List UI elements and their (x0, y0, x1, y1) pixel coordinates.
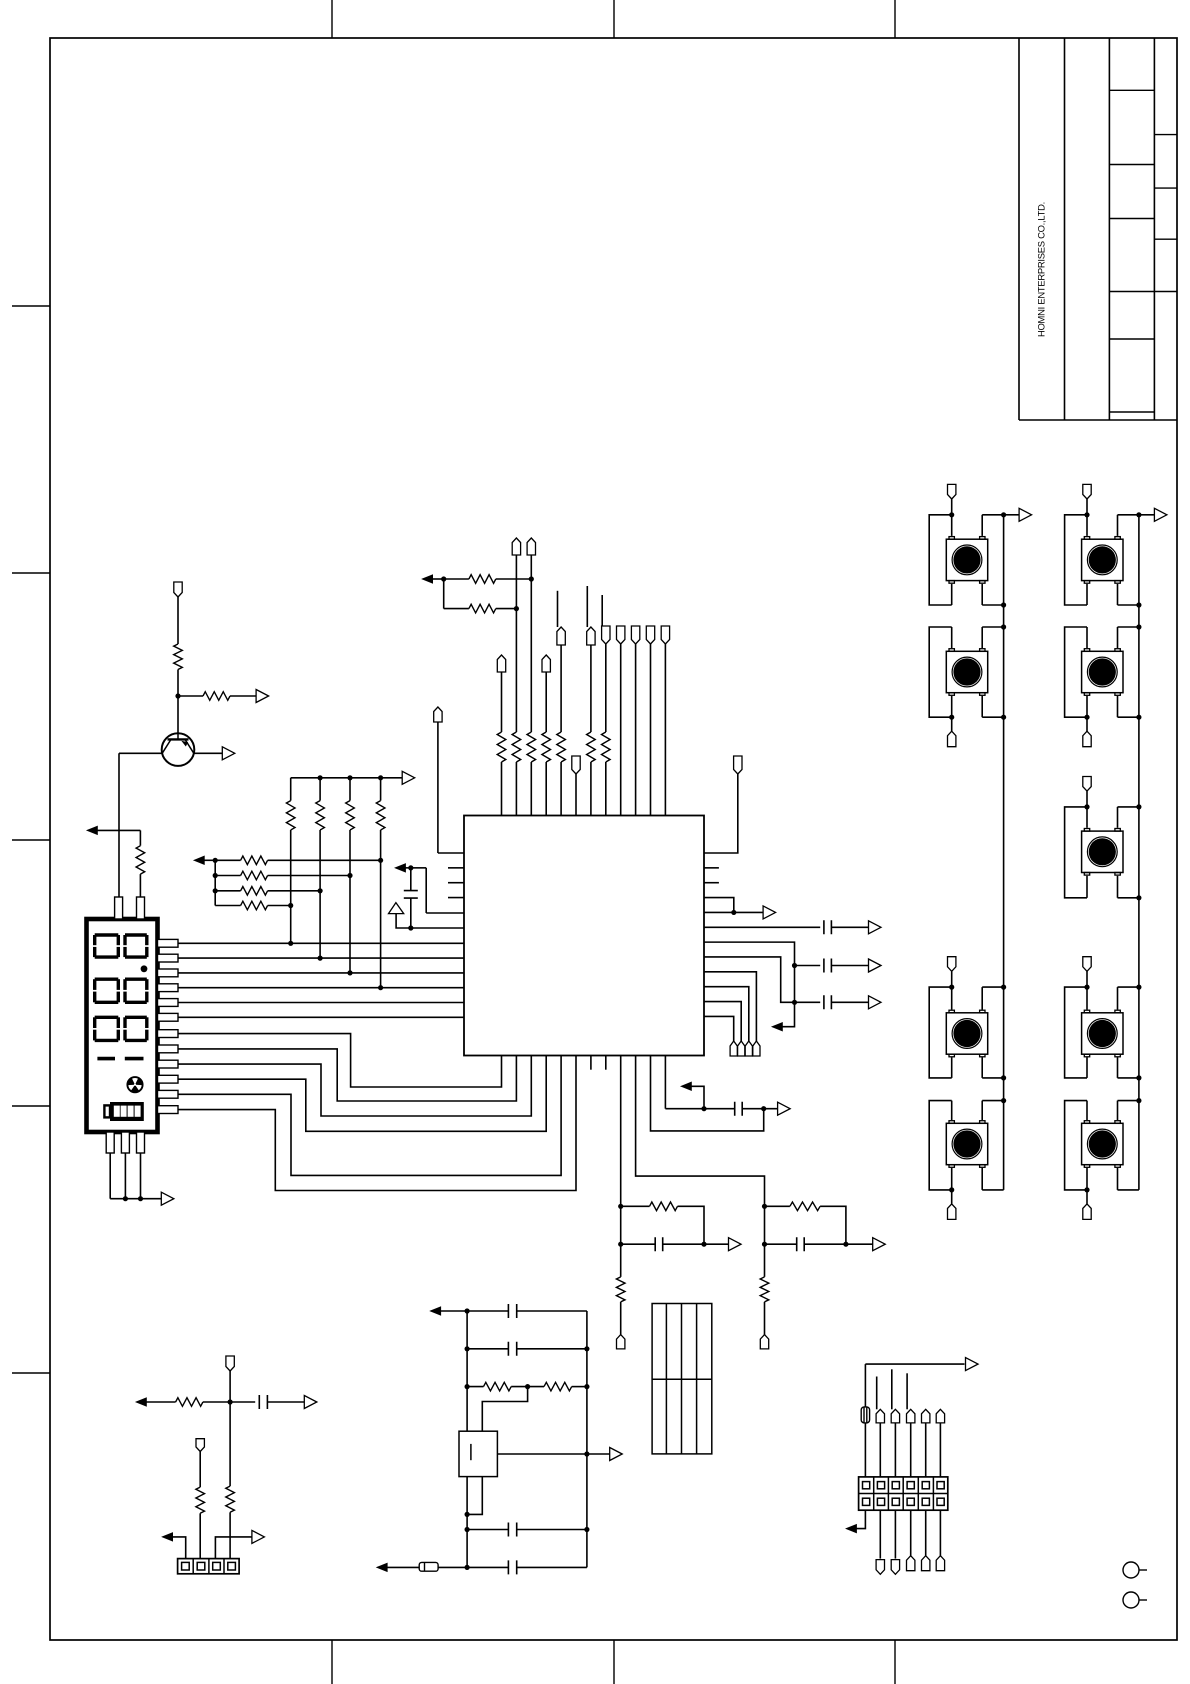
junction (1001, 602, 1006, 607)
frame tick left 1 (12, 305, 50, 307)
junction (701, 1242, 706, 1247)
wire R4 down (290, 830, 292, 943)
junction (1136, 1075, 1141, 1080)
wire X1 bottom b (467, 1477, 482, 1515)
net arrow N1 (87, 826, 97, 834)
mounting hole H1 (1123, 1562, 1147, 1578)
net flag J3 out4 (907, 1556, 915, 1571)
wire xt w4 a (467, 1529, 508, 1531)
net flag B10 (760, 1335, 768, 1349)
wire SW9 flagb (1086, 1190, 1088, 1204)
output port P5 (763, 906, 776, 919)
stub U1 L4 (448, 897, 464, 899)
wire SW3 br to bus (982, 1077, 1003, 1079)
wire F1 down (229, 1371, 231, 1402)
junction (1136, 895, 1141, 900)
resistor R11 (241, 901, 268, 910)
junction (1084, 804, 1089, 809)
wire xt bottom b (438, 1566, 508, 1568)
junction (465, 1565, 470, 1570)
junction (288, 941, 293, 946)
wire bus DS1 pin6 to U1 (178, 1016, 464, 1018)
resistor RT5 (557, 732, 566, 762)
wire out2 b (831, 1001, 868, 1003)
wire DS1 pin7 to U1 B1 (178, 1034, 502, 1087)
wire flag to elbow (437, 722, 439, 853)
wire Q1 collector right (194, 752, 222, 754)
wire SW2 bl (951, 696, 953, 717)
wire bus left col (1003, 515, 1005, 1190)
wire R12 out (496, 578, 532, 580)
capacitor C6 (797, 1237, 805, 1251)
capacitor C8 (508, 1304, 516, 1318)
wire xt w3 b (511, 1386, 527, 1388)
wire clk c (743, 1108, 778, 1110)
net flag SW5 top (1083, 484, 1091, 499)
wire cap top (410, 868, 412, 891)
wire SW8 bracket (1065, 987, 1087, 1078)
wire P14 to J2 (215, 1537, 252, 1559)
wire resistor to U1 pin 5 (560, 762, 562, 816)
switch SW7 (1082, 829, 1123, 876)
net flag top pin 9 (617, 626, 625, 644)
wire DS1 pin8 to U1 B2 (178, 1049, 516, 1101)
wire xt left bus a (466, 1311, 468, 1431)
junction (1001, 715, 1006, 720)
junction (514, 606, 519, 611)
junction (1136, 804, 1141, 809)
resistor R15 (650, 1202, 678, 1211)
frame tick bottom 3 (894, 1640, 896, 1684)
wire N4 (405, 867, 411, 869)
wire SW1 out (1004, 514, 1020, 516)
junction rail (347, 775, 352, 780)
wire RC2 r a (765, 1205, 790, 1207)
transistor Q1 (162, 733, 195, 766)
junction (1136, 985, 1141, 990)
junction (318, 888, 323, 893)
wire row4 b (268, 905, 291, 907)
microcontroller U1 (464, 816, 704, 1056)
wire flag to R1 (177, 597, 179, 644)
resistor R5 (316, 801, 325, 830)
wire RC1 out (704, 1243, 729, 1245)
wire SW4 flagb (951, 1190, 953, 1204)
wire emitter down to display (118, 753, 120, 897)
junction (465, 1527, 470, 1532)
wire SW4 tr to bus (982, 1100, 1003, 1102)
net flag top pin 11 (646, 626, 654, 644)
wire rail to R4 (290, 778, 292, 801)
frame tick bottom 1 (331, 1640, 333, 1684)
wire SW3 tr (981, 987, 983, 1009)
wire SW4 br to bus (982, 1189, 1003, 1191)
wire flag to resistor pin 4 (545, 672, 547, 732)
junction (1001, 985, 1006, 990)
wire R21 to J2 (229, 1512, 231, 1558)
wire SW7 flag (1086, 791, 1088, 807)
junction (441, 576, 446, 581)
net flag J3 out2 (876, 1560, 884, 1575)
wire J3 p1 out (856, 1510, 866, 1528)
resistor R9 (241, 871, 268, 880)
wire stub above flag pin 7 (586, 586, 588, 627)
frame tick left 3 (12, 839, 50, 841)
wire SW1 bl (951, 584, 953, 605)
junction (584, 1384, 589, 1389)
resistor RT4 (542, 732, 551, 762)
resistor R22 (196, 1487, 205, 1513)
junction (138, 1196, 143, 1201)
wire SW5 bracket (1065, 515, 1087, 605)
wire RC1 c b (663, 1243, 704, 1245)
wire bus DS1 pin3 to U1 (178, 972, 464, 974)
wire out1 a (795, 965, 821, 967)
wire SW1 tr to bus (982, 514, 1003, 516)
junction (318, 956, 323, 961)
junction (584, 1346, 589, 1351)
junction (1001, 1075, 1006, 1080)
net flag J3 out3 (891, 1560, 899, 1575)
wire SW4 bracket (929, 1101, 952, 1190)
wire SW3 tr to bus (982, 986, 1003, 988)
connector J3 (859, 1477, 948, 1510)
wire row3 a (215, 890, 240, 892)
resistor R14 (616, 1277, 625, 1302)
wire SW6 flagb (1086, 717, 1088, 731)
resistor R19 (544, 1382, 572, 1391)
wire arrow branch (691, 1086, 705, 1108)
output port P9 (729, 1238, 742, 1251)
junction (1136, 602, 1141, 607)
wire xt top b (467, 1310, 508, 1312)
resistor R21 (226, 1486, 235, 1512)
junction (843, 1242, 848, 1247)
resistor R13 (469, 604, 496, 613)
net flag SW9 bottom (1083, 1204, 1091, 1220)
stub U1 B8 (605, 1056, 607, 1070)
wire U1 B9 down (620, 1056, 622, 1277)
wire SW2 bracket (929, 627, 952, 717)
wire to R3 (139, 830, 141, 845)
wire U1 R7 (704, 942, 795, 1027)
wire J3 top rail (865, 1363, 964, 1365)
wire R2 to output (230, 695, 256, 697)
wire row3 b (268, 890, 321, 892)
junction (213, 858, 218, 863)
wire bus DS1 pin5 to U1 (178, 1002, 464, 1004)
capacitor C2 (824, 920, 832, 934)
wire SW5 br to bus (1118, 604, 1139, 606)
wire SW4 br (981, 1168, 983, 1190)
net arrow N2 (194, 856, 204, 864)
wire RC1 r a (621, 1205, 650, 1207)
junction rail (378, 775, 383, 780)
junction (949, 512, 954, 517)
output port P13 (304, 1396, 317, 1409)
wire flag to resistor pin 5 (560, 645, 562, 732)
junction (288, 903, 293, 908)
wire SW7 bracket (1065, 807, 1087, 898)
switch SW5 (1082, 537, 1123, 584)
wire SW2 flagb (951, 717, 953, 731)
switch SW6 (1082, 649, 1123, 696)
switch SW2 (946, 649, 987, 696)
wire J3 p2 (879, 1423, 881, 1477)
net flag SW3 top (948, 957, 956, 972)
wire node to Q1 (177, 696, 179, 734)
wire J3 p3 (894, 1423, 896, 1477)
wire U1 R8 (704, 957, 795, 1002)
wire stub above flag J3-4 (906, 1373, 908, 1409)
net flag R12 (730, 1041, 737, 1056)
net flag F2 (196, 1439, 204, 1452)
wire R1 to node (177, 670, 179, 697)
wire row1 b (268, 859, 381, 861)
wire stub above flag J3-2 (876, 1377, 878, 1410)
wire SW7 bl (1086, 876, 1088, 898)
wire J3 p1 b (864, 1423, 866, 1477)
junction (949, 985, 954, 990)
wire xt w3 a (467, 1386, 483, 1388)
wire SW7 br to bus (1118, 897, 1139, 899)
connector J2 (178, 1559, 240, 1574)
net arrow N11 (846, 1525, 856, 1533)
wire DS1 pin15 down (140, 1153, 142, 1199)
crystal X1 (459, 1431, 497, 1476)
junction (213, 873, 218, 878)
resistor R2 (203, 692, 230, 701)
wire J3 p4 out (910, 1510, 912, 1556)
wire rail to R5 (319, 778, 321, 801)
wire RC2 r b (820, 1206, 846, 1244)
wire SW1 bracket (929, 515, 952, 605)
wire SW8 bl (1086, 1058, 1088, 1078)
output port P2 (222, 747, 235, 760)
wire SW7 tl (1086, 807, 1088, 828)
capacitor C12 (259, 1395, 267, 1409)
resistor R6 (346, 801, 355, 830)
net flag B9 (617, 1335, 625, 1349)
wire to R21 (229, 1402, 231, 1486)
junction (378, 858, 383, 863)
wire R7 down (380, 830, 382, 988)
net flag R10 (745, 1041, 752, 1056)
resistor R12 (469, 575, 496, 584)
resistor R18 (484, 1382, 512, 1391)
resistor R7 (376, 801, 385, 830)
wire xt w2 a (467, 1348, 508, 1350)
wire SW5 out (1139, 514, 1155, 516)
net flag J3-6 (936, 1409, 944, 1423)
wire SW2 br (981, 696, 983, 717)
net arrow N9 (136, 1398, 146, 1406)
wire xt w2 b (517, 1348, 587, 1350)
junction (584, 1527, 589, 1532)
mounting hole H2 (1123, 1592, 1147, 1608)
wire resistor to U1 pin 4 (545, 762, 547, 816)
wire stub above flag pin 5 (557, 591, 559, 627)
wire SW6 tl (1086, 627, 1088, 648)
capacitor C11 (508, 1560, 516, 1574)
wire out1 b (831, 965, 868, 967)
wire SW3 bl (951, 1058, 953, 1078)
wire SW7 tr to bus (1118, 806, 1139, 808)
wire bus DS1 pin1 to U1 (178, 942, 464, 944)
output port SW5 (1154, 508, 1167, 521)
wire SW5 bl (1086, 584, 1088, 605)
net arrow N7 (431, 1307, 441, 1315)
resistor RT8 (602, 732, 611, 762)
junction (378, 985, 383, 990)
junction (123, 1196, 128, 1201)
bead FB2 (861, 1407, 869, 1423)
capacitor C10 (508, 1523, 516, 1537)
wire SW4 tr (981, 1101, 983, 1120)
wire U1 R1 to flag (704, 774, 738, 853)
net flag top pin 6 (572, 756, 580, 774)
wire SW7 tr (1117, 807, 1119, 828)
output port P11 (778, 1102, 791, 1115)
wire SW8 tr (1117, 987, 1119, 1009)
wire bus right col (1138, 515, 1140, 1190)
wire SW8 flag (1086, 971, 1088, 987)
display module DS1 (87, 897, 158, 1153)
junction (408, 925, 413, 930)
capacitor C9 (508, 1342, 516, 1356)
frame tick top 2 (613, 0, 615, 38)
wire SW6 tr (1117, 627, 1119, 648)
output port P1 (256, 690, 269, 703)
junction (1136, 1098, 1141, 1103)
switch SW3 (946, 1010, 987, 1057)
wire row1 a (215, 859, 240, 861)
resistor RT7 (587, 732, 596, 762)
wire node to R2 (178, 695, 203, 697)
wire stub above flag pin 8 (601, 595, 603, 626)
wire N1 to R3 (97, 829, 141, 831)
junction (347, 970, 352, 975)
junction (347, 873, 352, 878)
junction node base (175, 693, 180, 698)
net flag top pin 4 (542, 655, 550, 672)
wire xt left bus b (466, 1477, 468, 1568)
wire U1 R6 b (831, 926, 868, 928)
output port P4 (402, 771, 415, 784)
net flag L1 (434, 707, 442, 722)
wire SW5 tr (1117, 515, 1119, 536)
wire SW3 br (981, 1058, 983, 1078)
junction (584, 1451, 589, 1456)
resistor RT2 (512, 732, 521, 762)
svg-text:HOMNI ENTERPRISES CO.,LTD.: HOMNI ENTERPRISES CO.,LTD. (1036, 202, 1047, 337)
wire SW3 bracket (929, 987, 952, 1078)
net arrow N8 (377, 1563, 387, 1571)
ground symbol GND1 (389, 903, 404, 914)
output port P10 (873, 1238, 886, 1251)
wire DS1 pin10 to U1 B4 (178, 1056, 546, 1132)
net flag top pin 8 (602, 626, 610, 644)
title block company text (1036, 202, 1047, 337)
junction (731, 910, 736, 915)
ferrite bead FB1 (419, 1562, 438, 1571)
wire RC1 c a (621, 1243, 655, 1245)
junction (761, 1106, 766, 1111)
wire bus DS1 pin4 to U1 (178, 987, 464, 989)
wire SW5 tr to bus (1118, 514, 1139, 516)
output port P3 (161, 1192, 174, 1205)
junction (1136, 715, 1141, 720)
resistor R10 (241, 887, 268, 896)
resistor R17 (790, 1202, 820, 1211)
wire out2 a (795, 1001, 821, 1003)
wire R mid to X1 (482, 1387, 527, 1432)
wire to R12 (444, 578, 469, 580)
wire U1 R5 (704, 911, 764, 913)
stub U1 R3 (704, 882, 719, 884)
wire R6 down (349, 830, 351, 973)
wire SW7 br (1117, 876, 1119, 898)
wire RC2 c a (765, 1243, 797, 1245)
wire SW1 flag (951, 499, 953, 515)
wire SW6 br to bus (1118, 716, 1139, 718)
wire to R13 (444, 608, 469, 610)
wire resistor to U1 pin 2 (515, 762, 517, 816)
wire cap bottom (410, 898, 412, 928)
wire DS1 bottom common (110, 1198, 162, 1200)
wire N4 to elbow (411, 867, 426, 869)
wire SW6 tr to bus (1118, 626, 1139, 628)
frame tick top 1 (331, 0, 333, 38)
wire flag to U1 pin 12 (664, 644, 666, 816)
stub U1 R2 (704, 867, 719, 869)
wire J3 p6 (939, 1423, 941, 1477)
stub U1 B7 (590, 1056, 592, 1070)
net flag F1 (226, 1356, 234, 1371)
wire resistor to U1 pin 7 (590, 762, 592, 816)
wire RC1 r b (678, 1206, 705, 1244)
connector J1 (652, 1304, 712, 1454)
wire N2 (204, 859, 216, 861)
wire SW8 tl (1086, 987, 1088, 1009)
wire xt w3 c (528, 1386, 544, 1388)
wire SW9 tr to bus (1118, 1100, 1139, 1102)
wire F2 down (199, 1452, 201, 1488)
net flag SW6 bottom (1083, 731, 1091, 747)
junction (762, 1204, 767, 1209)
wire bl b (203, 1401, 255, 1403)
title block (1019, 38, 1177, 420)
net flag J3-4 (907, 1409, 915, 1423)
wire bl a (146, 1401, 176, 1403)
net flag top pin 1 (497, 655, 505, 672)
wire R3 to display (139, 874, 141, 897)
switch SW9 (1082, 1121, 1123, 1168)
junction (949, 1187, 954, 1192)
output port P12 (610, 1448, 623, 1461)
frame tick left 5 (12, 1372, 50, 1374)
capacitor C4 (824, 995, 832, 1009)
switch SW1 (946, 537, 987, 584)
junction (1084, 512, 1089, 517)
wire xt right bus (586, 1311, 588, 1567)
resistor R3 (136, 846, 145, 874)
wire N10 to J2 (172, 1537, 186, 1559)
net flag top pin 12 (661, 626, 669, 644)
junction (1084, 1187, 1089, 1192)
wire U1 R6 a (704, 926, 820, 928)
wire SW9 bl (1086, 1168, 1088, 1190)
